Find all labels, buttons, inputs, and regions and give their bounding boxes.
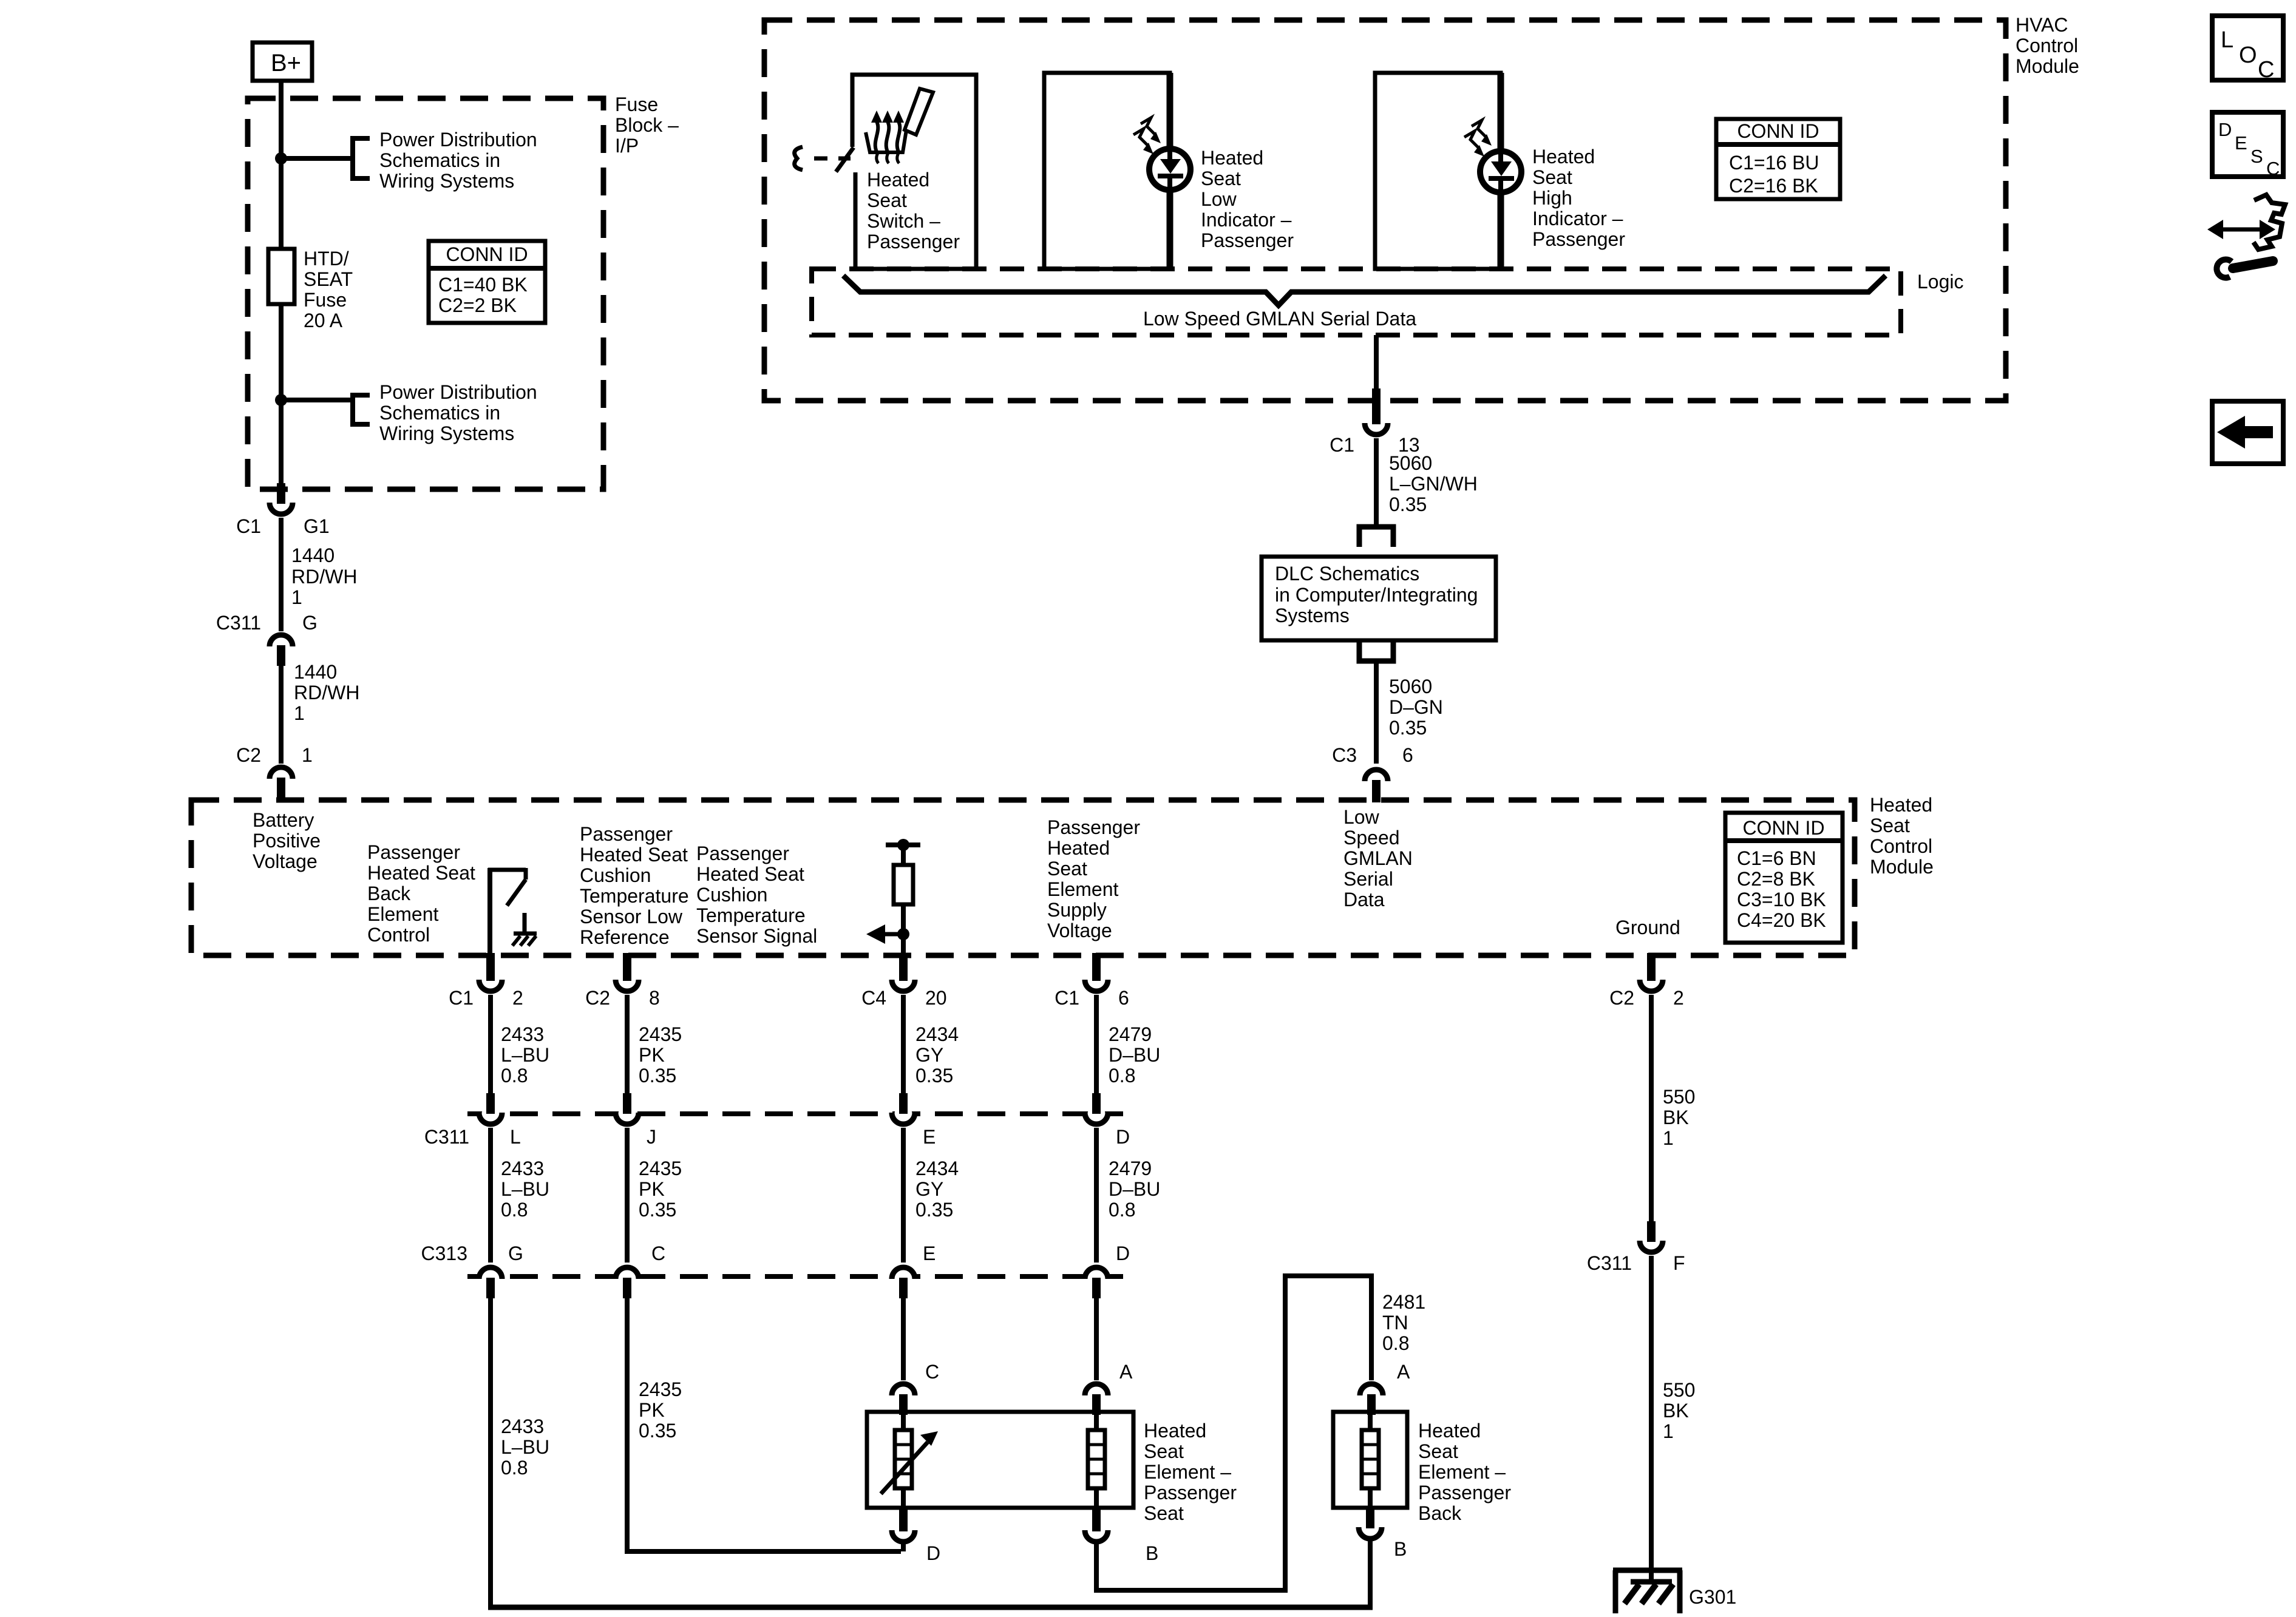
node junction lower: [275, 394, 287, 406]
svg-text:0.35: 0.35: [639, 1065, 676, 1086]
svg-text:0.35: 0.35: [639, 1199, 676, 1221]
svg-text:Heated: Heated: [1418, 1420, 1481, 1442]
heated seat low indicator box: [1044, 73, 1170, 269]
svg-text:Low: Low: [1343, 806, 1380, 828]
connector C1 pin 13: [1330, 388, 1420, 456]
wire into thermistor: [901, 845, 906, 865]
wire 2435 segment 1: [625, 995, 630, 1093]
connector seat element pin B: [1085, 1508, 1158, 1564]
LED high photo arrow 1: [1464, 131, 1484, 157]
back arrow icon box: [2212, 401, 2283, 464]
label Passenger Heated Seat Back Element Control: [367, 841, 475, 946]
svg-text:Heated: Heated: [1047, 837, 1110, 859]
CONN ID table HVAC: [1714, 119, 1842, 199]
svg-text:Heated: Heated: [1144, 1420, 1206, 1442]
bracket lower off-page: [353, 395, 370, 424]
connector C2 pin 2 ground below module: [1609, 953, 1684, 1009]
label Heated Seat Switch Passenger: [867, 169, 960, 253]
wire 2435 segment 3 jog to D: [627, 1298, 901, 1551]
svg-text:Switch –: Switch –: [867, 210, 940, 232]
wire 2435 segment 2: [625, 1128, 630, 1263]
svg-text:2434: 2434: [915, 1158, 959, 1179]
connector C1 pin 6 below module: [1055, 953, 1129, 1009]
svg-text:0.35: 0.35: [915, 1199, 953, 1221]
wire 2433 segment 2: [488, 1128, 493, 1263]
label circuit 1440 RD/WH 1 second: [294, 661, 359, 724]
svg-text:D–BU: D–BU: [1109, 1044, 1160, 1066]
svg-text:Low Speed GMLAN Serial Data: Low Speed GMLAN Serial Data: [1143, 308, 1416, 330]
connector C313 pin G: [421, 1242, 523, 1298]
svg-text:E: E: [923, 1242, 936, 1264]
svg-text:HVAC: HVAC: [2016, 14, 2068, 36]
svg-text:Passenger: Passenger: [1418, 1482, 1511, 1503]
svg-text:C313: C313: [421, 1242, 468, 1264]
svg-text:C3=10 BK: C3=10 BK: [1737, 889, 1826, 910]
label circuit 2479 D-BU 0.8 second: [1109, 1158, 1160, 1221]
heated seat icon arrow 1: [871, 110, 882, 152]
svg-text:D: D: [2218, 119, 2232, 140]
svg-text:C2: C2: [585, 987, 610, 1009]
svg-text:BK: BK: [1663, 1400, 1689, 1422]
wire 2481 seat B to back A: [1096, 1276, 1371, 1590]
fuse F HTD/SEAT 20A: [268, 249, 294, 304]
Heated Seat Control Module dashed box: [191, 800, 1855, 955]
seat thermistor element: [895, 1430, 912, 1488]
module output switch: [488, 868, 526, 954]
svg-text:C1: C1: [449, 987, 474, 1009]
svg-text:2479: 2479: [1109, 1023, 1152, 1045]
svg-text:20: 20: [925, 987, 947, 1009]
svg-text:Control: Control: [367, 924, 430, 946]
wire 550 segment 2: [1649, 1256, 1654, 1572]
svg-text:G: G: [508, 1242, 523, 1264]
svg-text:F: F: [1673, 1252, 1685, 1274]
svg-text:Logic: Logic: [1917, 271, 1964, 293]
svg-text:Data: Data: [1343, 889, 1385, 910]
LED low photo arrow 1: [1133, 129, 1153, 154]
svg-text:Passenger: Passenger: [367, 841, 460, 863]
LED low photo arrow 2: [1141, 118, 1161, 143]
label circuit 5060 L-GN/WH 0.35: [1389, 452, 1478, 515]
label circuit 2481 TN 0.8: [1382, 1291, 1425, 1354]
svg-text:Power Distribution: Power Distribution: [379, 129, 537, 151]
svg-text:550: 550: [1663, 1379, 1695, 1401]
label circuit 2434 GY 0.35 second: [915, 1158, 959, 1221]
svg-text:Supply: Supply: [1047, 899, 1107, 921]
wire 5060 D-GN: [1374, 661, 1379, 764]
svg-text:Seat: Seat: [1870, 815, 1910, 836]
svg-text:Fuse: Fuse: [304, 289, 347, 311]
svg-text:Systems: Systems: [1275, 605, 1350, 626]
label Passenger Heated Seat Element Supply Voltage: [1047, 816, 1140, 941]
svg-text:Control: Control: [1870, 835, 1932, 857]
svg-text:C311: C311: [1587, 1252, 1632, 1274]
connector C313 pin D: [1085, 1242, 1130, 1298]
svg-text:Wiring Systems: Wiring Systems: [379, 170, 514, 192]
svg-text:Heated: Heated: [1870, 794, 1932, 816]
svg-text:C2=16 BK: C2=16 BK: [1729, 175, 1818, 197]
svg-text:GY: GY: [915, 1178, 943, 1200]
svg-text:0.35: 0.35: [915, 1065, 953, 1086]
svg-text:DLC Schematics: DLC Schematics: [1275, 563, 1419, 585]
connector C2 pin 1: [236, 744, 313, 802]
svg-text:C1=16 BU: C1=16 BU: [1729, 152, 1819, 174]
svg-text:CONN ID: CONN ID: [1737, 120, 1819, 142]
svg-text:Seat: Seat: [1047, 858, 1087, 880]
heated seat switch box: [852, 75, 976, 269]
heated seat icon backrest: [905, 89, 933, 135]
svg-text:Indicator –: Indicator –: [1532, 208, 1623, 229]
wire 1440 segment 1: [279, 518, 284, 631]
label circuit 550 BK 1: [1663, 1086, 1695, 1149]
wire 5060 down to DLC: [1374, 438, 1379, 527]
svg-text:Module: Module: [1870, 856, 1934, 878]
svg-text:Passenger: Passenger: [580, 823, 673, 845]
svg-text:Speed: Speed: [1343, 827, 1400, 849]
C313 inline connector row dashed line: [467, 1274, 1123, 1279]
back heater element stub top: [1368, 1412, 1373, 1430]
svg-text:Battery: Battery: [253, 809, 314, 831]
LED low indicator: [1149, 73, 1190, 269]
svg-text:C311: C311: [424, 1126, 469, 1148]
wire 2434 segment 1: [901, 995, 906, 1093]
wire GMLAN out of logic box: [1374, 335, 1379, 399]
svg-text:6: 6: [1118, 987, 1129, 1009]
svg-text:2: 2: [512, 987, 523, 1009]
svg-text:D–GN: D–GN: [1389, 696, 1443, 718]
svg-text:L–GN/WH: L–GN/WH: [1389, 473, 1478, 495]
svg-text:2: 2: [1673, 987, 1684, 1009]
repair icon wrench: [2216, 260, 2273, 278]
svg-text:Heated Seat: Heated Seat: [580, 844, 688, 866]
svg-text:E: E: [923, 1126, 936, 1148]
bracket upper off-page: [353, 138, 370, 178]
svg-text:C2: C2: [236, 744, 261, 766]
B+ battery positive symbol: [253, 42, 312, 81]
svg-text:TN: TN: [1382, 1312, 1408, 1334]
svg-text:Schematics in: Schematics in: [379, 402, 500, 424]
svg-text:20 A: 20 A: [304, 310, 343, 331]
svg-text:GMLAN: GMLAN: [1343, 847, 1413, 869]
svg-text:G301: G301: [1689, 1586, 1736, 1608]
svg-text:1: 1: [1663, 1127, 1674, 1149]
label circuit 550 BK 1 second: [1663, 1379, 1695, 1442]
svg-text:Passenger: Passenger: [1532, 228, 1625, 250]
switch mechanical link dashes: [814, 157, 827, 161]
svg-text:High: High: [1532, 187, 1572, 209]
svg-text:Indicator –: Indicator –: [1201, 209, 1292, 231]
svg-text:BK: BK: [1663, 1107, 1689, 1128]
connector C313 pin C: [616, 1242, 665, 1298]
svg-text:Temperature: Temperature: [580, 885, 689, 907]
svg-text:Passenger: Passenger: [1047, 816, 1140, 838]
wire 2434 segment 2: [901, 1128, 906, 1263]
connector seat element pin D: [892, 1508, 940, 1564]
heated seat icon wavy tails below: [877, 153, 878, 163]
connector C311 pin E: [892, 1093, 936, 1148]
label HVAC Control Module: [2016, 14, 2079, 77]
wire 2434 segment 3: [901, 1298, 906, 1380]
svg-text:B: B: [1394, 1538, 1407, 1560]
Logic dashed box: [812, 269, 1901, 335]
seat heater element stub bottom: [1094, 1488, 1099, 1508]
svg-text:0.35: 0.35: [1389, 493, 1427, 515]
label Heated Seat Element Passenger Seat: [1144, 1420, 1237, 1524]
svg-text:1440: 1440: [294, 661, 337, 683]
svg-text:Seat: Seat: [1418, 1440, 1458, 1462]
svg-text:8: 8: [649, 987, 660, 1009]
seat thermistor variable arrow: [881, 1431, 938, 1494]
wire D stub to jog: [901, 1544, 906, 1551]
svg-text:Seat: Seat: [1144, 1440, 1184, 1462]
Fuse Block label: [615, 93, 679, 157]
svg-text:1440: 1440: [291, 544, 335, 566]
wire thermistor down: [901, 904, 906, 954]
label Passenger Heated Seat Cushion Temperature Sensor Low Reference: [580, 823, 689, 948]
svg-text:0.35: 0.35: [1389, 717, 1427, 739]
C311 inline connector row dashed line: [467, 1111, 1123, 1116]
svg-text:PK: PK: [639, 1399, 665, 1421]
svg-text:E: E: [2235, 132, 2247, 154]
label circuit 2433 L-BU 0.8 second: [501, 1158, 549, 1221]
module thermistor top rail: [886, 842, 920, 847]
svg-text:Low: Low: [1201, 188, 1237, 210]
svg-text:C2: C2: [1609, 987, 1634, 1009]
label circuit 2479 D-BU 0.8: [1109, 1023, 1160, 1086]
label Heated Seat High Indicator Passenger: [1532, 146, 1625, 250]
svg-text:L–BU: L–BU: [501, 1178, 549, 1200]
svg-text:I/P: I/P: [615, 135, 639, 157]
wire 2479 segment 2: [1094, 1128, 1099, 1263]
wire 2433 segment 1: [488, 995, 493, 1093]
svg-text:2479: 2479: [1109, 1158, 1152, 1179]
HVAC Control Module dashed box: [764, 20, 2006, 401]
svg-text:Heated: Heated: [867, 169, 929, 191]
svg-text:C1: C1: [236, 515, 261, 537]
DESC icon box: [2212, 112, 2283, 179]
back heater element stub bottom: [1368, 1488, 1373, 1508]
label Heated Seat Low Indicator Passenger: [1201, 147, 1294, 251]
ground G301: [1613, 1570, 1682, 1613]
svg-text:1: 1: [294, 702, 305, 724]
svg-text:2433: 2433: [501, 1023, 544, 1045]
svg-text:Seat: Seat: [1144, 1502, 1184, 1524]
svg-text:6: 6: [1402, 744, 1413, 766]
svg-text:Element: Element: [1047, 878, 1119, 900]
label Battery Positive Voltage: [253, 809, 321, 872]
svg-text:Ground: Ground: [1615, 917, 1680, 938]
svg-text:Element: Element: [367, 903, 439, 925]
svg-text:2433: 2433: [501, 1158, 544, 1179]
svg-text:D: D: [1116, 1126, 1130, 1148]
svg-text:Module: Module: [2016, 55, 2079, 77]
svg-text:Back: Back: [1418, 1502, 1462, 1524]
svg-text:C1=6 BN: C1=6 BN: [1737, 847, 1816, 869]
svg-text:B: B: [1146, 1542, 1158, 1564]
label fuse: [304, 248, 353, 331]
svg-text:L–BU: L–BU: [501, 1044, 549, 1066]
svg-text:Heated: Heated: [1201, 147, 1263, 169]
svg-text:SEAT: SEAT: [304, 268, 353, 290]
svg-text:PK: PK: [639, 1178, 665, 1200]
wire branch to upper power distribution bracket: [281, 156, 353, 161]
svg-text:0.8: 0.8: [501, 1199, 528, 1221]
label Passenger Heated Seat Cushion Temperature Sensor Signal: [696, 842, 817, 947]
svg-text:Heated Seat: Heated Seat: [367, 862, 475, 884]
svg-text:1: 1: [1663, 1420, 1674, 1442]
svg-text:C: C: [651, 1242, 665, 1264]
svg-text:C: C: [2258, 57, 2274, 83]
svg-text:J: J: [647, 1126, 656, 1148]
svg-text:2435: 2435: [639, 1023, 682, 1045]
svg-text:Seat: Seat: [1532, 166, 1572, 188]
connector C313 pin E: [892, 1242, 936, 1298]
svg-text:Wiring Systems: Wiring Systems: [379, 422, 514, 444]
seat heater element stub top: [1094, 1412, 1099, 1430]
connector C2 pin 8 below module: [585, 953, 660, 1009]
svg-text:PK: PK: [639, 1044, 665, 1066]
svg-text:S: S: [2250, 146, 2263, 167]
svg-text:C2=2 BK: C2=2 BK: [438, 294, 517, 316]
svg-text:C311: C311: [216, 612, 261, 634]
svg-text:Heated Seat: Heated Seat: [696, 863, 804, 885]
CONN ID table fuse block: [427, 241, 547, 323]
label circuit 1440 RD/WH 1: [291, 544, 357, 608]
switch actuator bracket: [795, 147, 803, 170]
wire back B down to bottom rail: [1368, 1541, 1373, 1607]
connector back element pin A: [1360, 1361, 1410, 1415]
svg-text:G1: G1: [304, 515, 330, 537]
svg-text:D–BU: D–BU: [1109, 1178, 1160, 1200]
DLC Schematics box: [1262, 557, 1496, 640]
connector C1 pin G1: [236, 483, 330, 537]
svg-text:C1: C1: [1055, 987, 1079, 1009]
wire branch to lower power distribution bracket: [281, 398, 353, 402]
svg-text:A: A: [1397, 1361, 1410, 1383]
svg-text:C2=8 BK: C2=8 BK: [1737, 868, 1815, 890]
LOC icon box: [2212, 16, 2283, 83]
svg-text:Passenger: Passenger: [1201, 229, 1294, 251]
svg-text:C1=40 BK: C1=40 BK: [438, 274, 528, 296]
CONN ID table module: [1724, 813, 1843, 943]
svg-text:in Computer/Integrating: in Computer/Integrating: [1275, 584, 1478, 606]
label circuit 2435 PK 0.35 third: [639, 1378, 682, 1442]
svg-text:Passenger: Passenger: [696, 842, 789, 864]
svg-text:L: L: [2221, 27, 2233, 53]
connector C1 pin 2 below module: [449, 953, 523, 1009]
connector C311 pin L: [424, 1093, 521, 1148]
svg-text:C1: C1: [1330, 434, 1354, 456]
svg-text:C3: C3: [1332, 744, 1357, 766]
heated seat high indicator box: [1375, 73, 1501, 269]
svg-text:Reference: Reference: [580, 926, 670, 948]
node junction upper: [275, 152, 287, 164]
svg-text:2434: 2434: [915, 1023, 959, 1045]
svg-text:GY: GY: [915, 1044, 943, 1066]
node dot thermistor top: [897, 839, 909, 851]
svg-text:2435: 2435: [639, 1378, 682, 1400]
connector C311 pin G: [216, 612, 318, 666]
repair icon harness outline: [2254, 195, 2285, 249]
svg-text:G: G: [302, 612, 318, 634]
module thermistor resistor: [894, 865, 913, 904]
svg-text:D: D: [1116, 1242, 1130, 1264]
svg-text:Voltage: Voltage: [253, 850, 318, 872]
seat heater element: [1088, 1430, 1105, 1488]
svg-text:0.8: 0.8: [1109, 1199, 1135, 1221]
svg-text:Seat: Seat: [867, 189, 907, 211]
heated seat icon arrow 2: [882, 110, 893, 152]
svg-text:O: O: [2239, 42, 2257, 68]
svg-text:Voltage: Voltage: [1047, 920, 1112, 941]
LED high photo arrow 2: [1472, 120, 1492, 146]
label Power Distribution upper: [379, 129, 537, 192]
off-page bracket below DLC: [1359, 639, 1393, 661]
wire 1440 segment 2: [279, 666, 284, 764]
svg-text:Sensor Signal: Sensor Signal: [696, 925, 817, 947]
svg-text:HTD/: HTD/: [304, 248, 349, 269]
off-page bracket above DLC: [1359, 527, 1393, 547]
svg-text:Heated: Heated: [1532, 146, 1595, 168]
svg-text:Temperature: Temperature: [696, 904, 806, 926]
Fuse Block dashed box: [248, 98, 603, 489]
svg-text:C4: C4: [861, 987, 886, 1009]
connector C311 pin F: [1587, 1221, 1685, 1274]
heated seat element passenger seat box: [867, 1412, 1133, 1508]
label circuit 2433 L-BU 0.8 third: [501, 1415, 549, 1479]
wire 550 segment 1: [1649, 995, 1654, 1222]
svg-text:2481: 2481: [1382, 1291, 1425, 1313]
wire 2433 segment 3 to bottom rail: [488, 1298, 493, 1605]
label circuit 2433 L-BU 0.8: [501, 1023, 549, 1086]
label circuit 2435 PK 0.35: [639, 1023, 682, 1086]
svg-text:0.8: 0.8: [501, 1065, 528, 1086]
svg-text:Back: Back: [367, 883, 411, 904]
svg-text:Block –: Block –: [615, 114, 679, 136]
svg-text:Element –: Element –: [1418, 1461, 1506, 1483]
connector seat element pin A: [1085, 1361, 1133, 1415]
svg-text:Serial: Serial: [1343, 868, 1393, 890]
svg-text:Fuse: Fuse: [615, 93, 658, 115]
connector C4 pin 20 below module: [861, 953, 947, 1009]
wire 2479 segment 1: [1094, 995, 1099, 1093]
svg-text:RD/WH: RD/WH: [294, 682, 359, 703]
svg-text:2435: 2435: [639, 1158, 682, 1179]
svg-text:Sensor Low: Sensor Low: [580, 906, 683, 927]
label Heated Seat Element Passenger Back: [1418, 1420, 1511, 1524]
connector seat element pin C: [892, 1361, 939, 1415]
connector C311 pin J: [616, 1093, 656, 1148]
serial data bus brace: [843, 276, 1886, 305]
label Heated Seat Control Module: [1870, 794, 1934, 878]
svg-text:2433: 2433: [501, 1415, 544, 1437]
svg-text:550: 550: [1663, 1086, 1695, 1108]
heated seat icon arrow 3: [893, 110, 904, 152]
svg-text:L–BU: L–BU: [501, 1436, 549, 1458]
svg-text:5060: 5060: [1389, 452, 1432, 474]
svg-text:Schematics in: Schematics in: [379, 149, 500, 171]
svg-text:1: 1: [302, 744, 313, 766]
svg-text:5060: 5060: [1389, 676, 1432, 697]
seat thermistor stub top: [901, 1412, 906, 1430]
connector C311 pin D: [1085, 1093, 1130, 1148]
svg-text:Passenger: Passenger: [867, 231, 960, 253]
back heater element: [1362, 1430, 1379, 1488]
wire 2479 segment 3: [1094, 1298, 1099, 1380]
label circuit 2435 PK 0.35 second: [639, 1158, 682, 1221]
repair icon double arrow: [2207, 220, 2275, 239]
svg-text:0.8: 0.8: [1109, 1065, 1135, 1086]
